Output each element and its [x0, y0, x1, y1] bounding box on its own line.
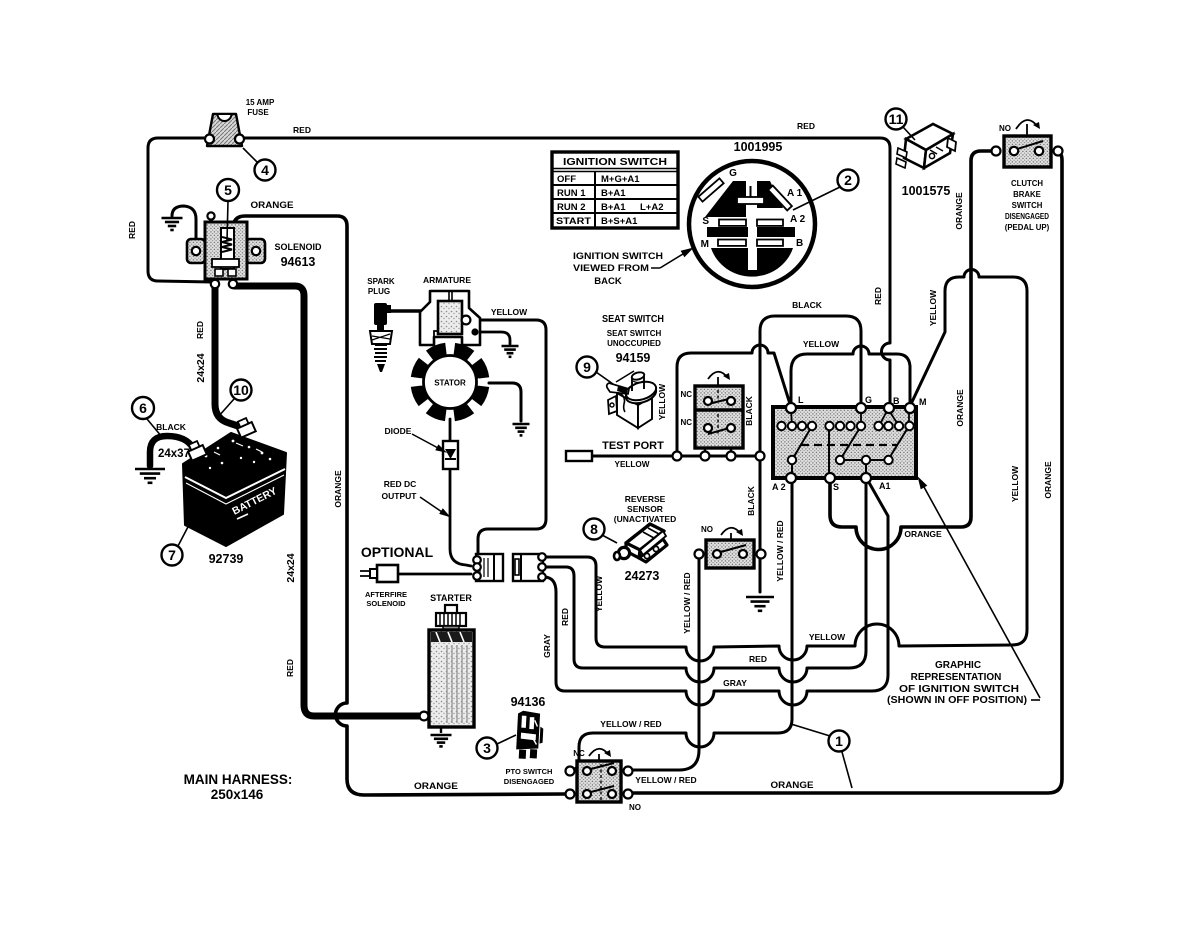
svg-text:NC: NC [680, 418, 692, 427]
ignition switch graphic representation block [773, 403, 916, 483]
circled 6 [147, 419, 162, 437]
circled 10 [218, 399, 234, 417]
svg-text:94136: 94136 [511, 695, 546, 709]
svg-text:24x24: 24x24 [195, 353, 207, 382]
circled 5 [217, 179, 239, 201]
fuse 15 amp [205, 114, 244, 146]
ignition switch circular back view [689, 161, 815, 287]
circled 2 + leader [793, 187, 840, 210]
svg-text:9: 9 [583, 359, 591, 375]
reverse sensor 24273 3d [614, 524, 667, 562]
circled 7 [178, 523, 190, 546]
svg-text:A 2: A 2 [772, 482, 786, 492]
svg-text:FUSE: FUSE [247, 108, 269, 117]
svg-text:RED DC: RED DC [384, 479, 417, 489]
svg-text:G: G [729, 168, 737, 179]
svg-text:3: 3 [483, 740, 491, 756]
solenoid 94613 [187, 212, 265, 288]
svg-text:YELLOW: YELLOW [491, 307, 528, 317]
pto switch schematic [566, 749, 633, 802]
svg-text:STARTER: STARTER [430, 593, 472, 603]
svg-text:TEST PORT: TEST PORT [602, 440, 664, 452]
svg-text:RED: RED [127, 221, 137, 239]
wire gray: connector bottom pin to terminal A1 via diagonal [545, 479, 888, 705]
svg-text:94613: 94613 [281, 255, 316, 269]
svg-text:REPRESENTATION: REPRESENTATION [911, 672, 1002, 683]
wire red: connector middle pin to terminal A1 [545, 481, 866, 682]
svg-text:A 1: A 1 [787, 188, 803, 199]
ground: stator winding [513, 423, 530, 426]
svg-text:IGNITION SWITCH: IGNITION SWITCH [573, 251, 663, 262]
svg-text:ORANGE: ORANGE [771, 780, 814, 790]
wire: armature ground wire [478, 332, 510, 344]
svg-text:PLUG: PLUG [368, 287, 390, 296]
svg-text:(SHOWN IN OFF POSITION): (SHOWN IN OFF POSITION) [887, 695, 1027, 706]
wire: black battery negative cable to ground [150, 436, 196, 466]
wire yellow: armature output down to connector top pin [469, 320, 546, 553]
wire: spark plug lead [386, 309, 424, 312]
svg-text:YELLOW: YELLOW [803, 339, 840, 349]
svg-text:1: 1 [835, 733, 843, 749]
wire red: fuse left down to solenoid battery terminal [148, 138, 212, 282]
svg-text:10: 10 [233, 382, 249, 398]
seat switch 94159 3d view [607, 371, 659, 428]
svg-text:5: 5 [224, 182, 232, 198]
svg-text:GRAY: GRAY [723, 678, 747, 688]
svg-text:UNOCCUPIED: UNOCCUPIED [607, 339, 661, 348]
svg-text:RED: RED [797, 121, 815, 131]
circled 3 [497, 735, 516, 744]
svg-text:L+A2: L+A2 [640, 202, 664, 213]
svg-text:24x24: 24x24 [285, 553, 297, 582]
svg-text:B+S+A1: B+S+A1 [601, 216, 638, 227]
svg-text:ORANGE: ORANGE [954, 192, 964, 230]
svg-text:RED: RED [293, 125, 311, 135]
svg-text:YELLOW: YELLOW [809, 632, 846, 642]
svg-text:2: 2 [844, 172, 852, 188]
svg-text:B: B [893, 396, 900, 406]
svg-text:A 2: A 2 [790, 214, 806, 225]
diode [443, 441, 458, 469]
seat switch schematic [695, 372, 743, 452]
svg-text:AFTERFIRE: AFTERFIRE [365, 590, 407, 599]
svg-text:YELLOW / RED: YELLOW / RED [635, 775, 696, 785]
svg-text:92739: 92739 [209, 552, 244, 566]
svg-text:NC: NC [573, 749, 585, 758]
svg-text:BRAKE: BRAKE [1013, 190, 1041, 199]
svg-text:NO: NO [629, 803, 641, 812]
svg-text:DIODE: DIODE [385, 426, 412, 436]
svg-text:1001995: 1001995 [734, 140, 783, 154]
svg-text:ORANGE: ORANGE [904, 529, 942, 539]
svg-text:BLACK: BLACK [746, 485, 756, 516]
afterfire solenoid [360, 565, 398, 582]
wire orange: bottom harness to clutch brake switch right contact [633, 151, 1062, 793]
circled 1 + leaders [791, 724, 830, 736]
svg-text:BLACK: BLACK [744, 395, 754, 426]
svg-text:1001575: 1001575 [902, 184, 951, 198]
svg-text:GRAPHIC: GRAPHIC [935, 660, 981, 671]
ground: solenoid coil [162, 217, 183, 220]
svg-text:ORANGE: ORANGE [333, 470, 343, 508]
svg-text:IGNITION SWITCH: IGNITION SWITCH [563, 156, 667, 168]
circled 9 [596, 372, 613, 384]
svg-text:S: S [833, 482, 839, 492]
svg-text:ARMATURE: ARMATURE [423, 275, 471, 285]
pto connector 94136 [516, 710, 544, 759]
clutch brake switch 1001575 3d [896, 124, 956, 168]
wire: stator right winding to ground [489, 383, 521, 421]
wire: stator dc output through diode to connector [449, 419, 452, 441]
svg-text:NC: NC [680, 390, 692, 399]
svg-text:DISENGAGED: DISENGAGED [1005, 212, 1049, 221]
svg-text:BLACK: BLACK [156, 422, 187, 432]
wire yellow/red: terminal A2 down to PTO switch NC left [574, 481, 792, 769]
stator [414, 349, 486, 415]
wire: thick battery positive cable solenoid to battery [215, 284, 241, 427]
svg-text:RED: RED [873, 287, 883, 305]
svg-text:11: 11 [889, 111, 904, 127]
svg-text:M: M [701, 239, 709, 250]
svg-text:M: M [919, 397, 927, 407]
svg-text:L: L [798, 395, 804, 405]
armature [420, 291, 480, 345]
starter [420, 605, 474, 733]
ignition switch table [552, 152, 678, 228]
spark plug [370, 303, 392, 372]
svg-text:4: 4 [261, 162, 269, 178]
connector pair [473, 554, 503, 581]
svg-text:RED: RED [285, 659, 295, 677]
svg-text:PTO SWITCH: PTO SWITCH [506, 767, 553, 776]
svg-text:YELLOW / RED: YELLOW / RED [682, 572, 692, 633]
svg-text:NO: NO [701, 525, 713, 534]
wire red: fuse right across top, down right side to terminal B [242, 138, 890, 403]
circled 11 [903, 127, 915, 140]
svg-text:94159: 94159 [616, 351, 651, 365]
leader circle 5 [227, 201, 228, 241]
svg-text:OF IGNITION SWITCH: OF IGNITION SWITCH [899, 684, 1019, 695]
reverse sensor switch schematic [695, 528, 766, 568]
svg-text:RUN 1: RUN 1 [557, 188, 586, 199]
svg-text:STATOR: STATOR [434, 379, 466, 388]
svg-text:RED: RED [195, 321, 205, 339]
wire yellow/red: reverse sensor switch left contact down to PTO NC right [633, 559, 699, 770]
svg-text:OFF: OFF [557, 174, 576, 185]
svg-text:SPARK: SPARK [367, 277, 395, 286]
svg-text:(PEDAL UP): (PEDAL UP) [1005, 223, 1050, 232]
svg-text:START: START [556, 216, 591, 227]
svg-text:24x37: 24x37 [158, 448, 190, 460]
svg-text:OPTIONAL: OPTIONAL [361, 544, 434, 560]
svg-text:SOLENOID: SOLENOID [274, 242, 322, 252]
svg-text:G: G [865, 395, 872, 405]
wire orange: solenoid across and down to bottom harness [233, 216, 565, 795]
svg-text:VIEWED FROM: VIEWED FROM [573, 263, 649, 274]
svg-text:RED: RED [560, 608, 570, 626]
wire yellow: seat switch via test port up to terminal L, jumper L to M [677, 345, 790, 451]
wire: solenoid coil ground wire [172, 206, 196, 250]
svg-text:YELLOW: YELLOW [1010, 465, 1020, 502]
svg-text:24273: 24273 [625, 569, 660, 583]
svg-text:15 AMP: 15 AMP [246, 98, 275, 107]
svg-text:OUTPUT: OUTPUT [382, 491, 418, 501]
svg-text:REVERSE: REVERSE [625, 494, 666, 504]
wire yellow: terminal M up across right side down joining yellow harness wire [545, 270, 1027, 662]
battery 92739 [183, 417, 286, 546]
wire black: terminal G up over bridge and down to reverse switch right / ground [760, 316, 861, 592]
svg-text:CLUTCH: CLUTCH [1011, 179, 1043, 188]
svg-text:M+G+A1: M+G+A1 [601, 174, 640, 185]
svg-text:YELLOW: YELLOW [928, 289, 938, 326]
svg-text:ORANGE: ORANGE [955, 389, 965, 427]
ground: armature [502, 345, 519, 348]
svg-text:YELLOW / RED: YELLOW / RED [775, 520, 785, 581]
svg-text:B+A1: B+A1 [601, 188, 626, 199]
svg-text:ORANGE: ORANGE [1043, 461, 1053, 499]
wire: test port line [592, 455, 758, 458]
circled 4 [255, 160, 276, 181]
svg-text:SEAT SWITCH: SEAT SWITCH [602, 314, 664, 325]
svg-text:MAIN HARNESS:: MAIN HARNESS: [184, 772, 293, 787]
svg-text:ORANGE: ORANGE [251, 200, 294, 210]
svg-text:YELLOW: YELLOW [615, 459, 651, 469]
clutch brake switch schematic [992, 120, 1063, 167]
svg-text:BLACK: BLACK [792, 300, 823, 310]
wire: thick red cable solenoid to starter [234, 286, 420, 716]
svg-text:BACK: BACK [594, 276, 622, 287]
svg-text:DISENGAGED: DISENGAGED [504, 777, 555, 786]
test port [566, 451, 592, 461]
svg-text:ORANGE: ORANGE [414, 781, 458, 791]
svg-text:6: 6 [139, 400, 147, 416]
wire: afterfire solenoid lead [398, 573, 471, 576]
svg-text:YELLOW: YELLOW [657, 383, 667, 420]
wire orange: clutch brake switch left contact down to terminal S [830, 151, 998, 550]
svg-text:YELLOW: YELLOW [594, 575, 604, 612]
svg-text:SEAT SWITCH: SEAT SWITCH [607, 329, 662, 338]
svg-text:RUN 2: RUN 2 [557, 202, 586, 213]
svg-text:S: S [702, 216, 709, 227]
svg-text:SENSOR: SENSOR [627, 504, 663, 514]
svg-text:SOLENOID: SOLENOID [366, 599, 406, 608]
svg-text:NO: NO [999, 124, 1011, 133]
circled 8 [602, 535, 617, 543]
ground: starter case [431, 734, 452, 737]
ground: battery negative [135, 468, 165, 471]
svg-text:250x146: 250x146 [211, 787, 264, 802]
ground: black harness wire [746, 596, 774, 599]
svg-text:B+A1: B+A1 [601, 202, 626, 213]
svg-text:GRAY: GRAY [542, 634, 552, 658]
svg-text:YELLOW / RED: YELLOW / RED [600, 719, 661, 729]
svg-text:SWITCH: SWITCH [1012, 201, 1043, 210]
svg-text:8: 8 [590, 521, 598, 537]
svg-text:B: B [796, 238, 803, 249]
svg-text:A1: A1 [879, 481, 891, 491]
svg-text:7: 7 [168, 547, 176, 563]
svg-text:RED: RED [749, 654, 767, 664]
leader to circle 4 [243, 148, 258, 163]
svg-text:(UNACTIVATED: (UNACTIVATED [614, 514, 676, 524]
